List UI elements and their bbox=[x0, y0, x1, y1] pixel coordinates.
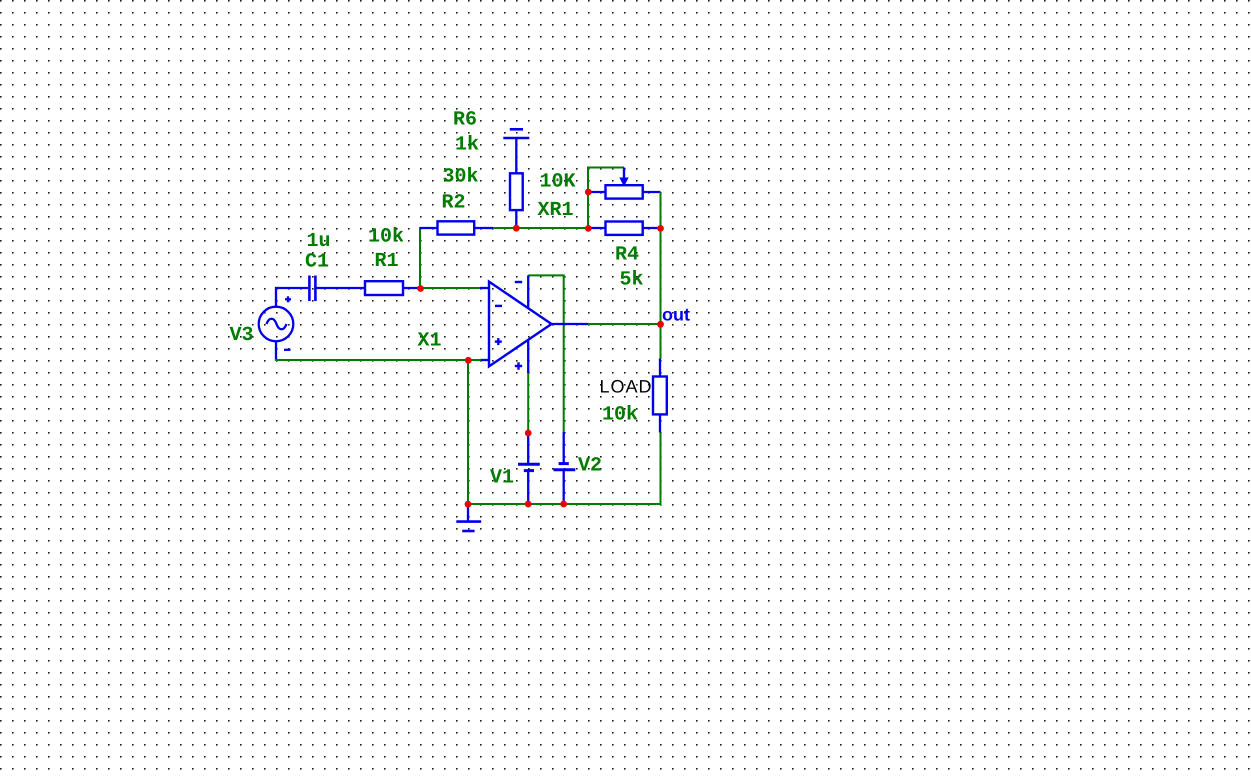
svg-text:V3: V3 bbox=[230, 324, 254, 347]
wire R1 right stub bbox=[403, 287, 421, 289]
op-amp X1 bbox=[480, 275, 589, 373]
wire op-amp V- pin down to V1 (green) bbox=[527, 372, 529, 433]
wire R6 bottom stub (blue) bbox=[515, 210, 517, 228]
svg-text:10K: 10K bbox=[540, 171, 576, 194]
resistor R2 bbox=[438, 221, 475, 234]
capacitor C1 bbox=[309, 276, 315, 302]
wire junction down to ground rail (green) bbox=[467, 360, 469, 504]
resistor R1 bbox=[365, 281, 403, 295]
resistor R4 bbox=[589, 222, 661, 235]
svg-text:30k: 30k bbox=[443, 166, 479, 189]
junction dot XR1 left bbox=[585, 189, 592, 196]
svg-text:1k: 1k bbox=[455, 134, 479, 157]
wire C1 to R1 (blue) bbox=[317, 287, 366, 289]
resistor LOAD bbox=[653, 359, 667, 433]
svg-text:V2: V2 bbox=[578, 455, 602, 478]
wire R2 to XR1 junction (green) bbox=[493, 227, 589, 229]
junction dot ground bbox=[465, 501, 472, 508]
svg-text:10k: 10k bbox=[602, 404, 638, 427]
svg-text:R4: R4 bbox=[615, 244, 639, 267]
wire bottom rail (green) bbox=[467, 503, 661, 505]
potentiometer XR1 bbox=[589, 168, 661, 199]
svg-text:10k: 10k bbox=[368, 226, 404, 249]
svg-text:V1: V1 bbox=[490, 467, 514, 490]
wire wiper loop top (green) bbox=[587, 167, 624, 169]
wire junction to op-amp inverting input (green) bbox=[420, 287, 481, 289]
wire output green segment to out node bbox=[588, 323, 661, 325]
junction dot R1 output bbox=[417, 285, 424, 292]
wire XR1 left vertical (green) bbox=[587, 168, 589, 230]
svg-text:out: out bbox=[662, 305, 690, 325]
svg-text:R6: R6 bbox=[453, 109, 477, 132]
svg-text:R2: R2 bbox=[442, 192, 466, 215]
svg-text:XR1: XR1 bbox=[538, 199, 574, 222]
svg-text:LOAD: LOAD bbox=[600, 377, 653, 397]
power rail symbol above R6 bbox=[503, 129, 529, 173]
wire V3 top to C1 (blue) bbox=[276, 288, 308, 307]
junction dot plus input bbox=[465, 357, 472, 364]
wire LOAD bottom to rail (green) bbox=[660, 432, 662, 505]
wire XR1 right down to R4 right (green) bbox=[660, 192, 662, 228]
junction dot V1 bottom bbox=[525, 501, 532, 508]
wire V3 bottom to plus-input junction (blue drop, green run) bbox=[275, 341, 277, 360]
wire right column R4 junction down to LOAD (green) bbox=[660, 228, 662, 359]
svg-text:R1: R1 bbox=[375, 250, 399, 273]
junction dot R4 right bbox=[657, 225, 664, 232]
voltage source V3 bbox=[259, 296, 294, 350]
junction dot V2 bottom bbox=[560, 501, 567, 508]
junction dot R6 bottom bbox=[513, 225, 520, 232]
junction dot V1 top bbox=[525, 430, 532, 437]
resistor R6 bbox=[510, 173, 523, 210]
wire feedback vertical (green) bbox=[419, 227, 421, 289]
battery V2 bbox=[554, 432, 576, 504]
svg-text:5k: 5k bbox=[620, 269, 644, 292]
svg-text:C1: C1 bbox=[305, 251, 329, 274]
ground symbol bbox=[456, 504, 481, 531]
wire op-amp V+ pin to V2 rail (green) bbox=[528, 275, 564, 432]
battery V1 bbox=[518, 433, 540, 504]
wire R2 left stub (blue) bbox=[420, 227, 438, 229]
junction dot R4 left bbox=[585, 225, 592, 232]
junction dot out node bbox=[657, 321, 664, 328]
svg-text:X1: X1 bbox=[418, 330, 442, 353]
wire R2 right stub (blue) bbox=[474, 227, 493, 229]
